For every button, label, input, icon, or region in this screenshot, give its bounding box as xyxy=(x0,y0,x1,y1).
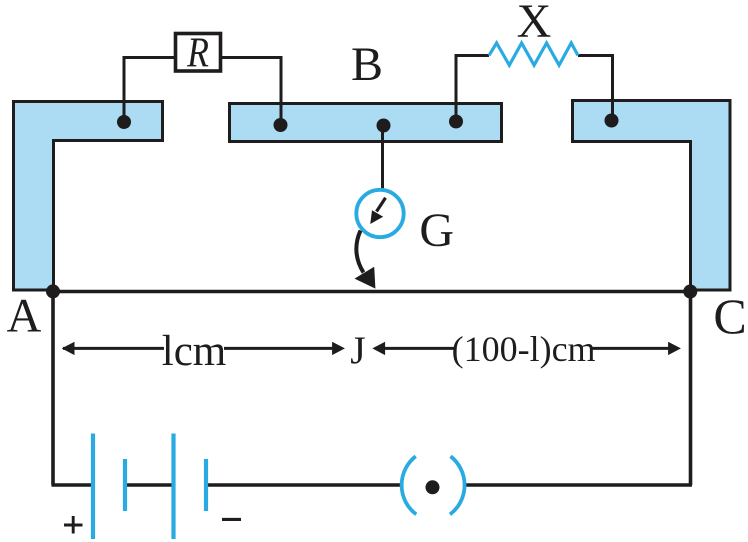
svg-text:A: A xyxy=(7,290,42,343)
svg-text:(100-l)cm: (100-l)cm xyxy=(452,329,596,369)
svg-text:J: J xyxy=(350,328,365,372)
svg-text:X: X xyxy=(517,0,552,48)
svg-text:C: C xyxy=(713,288,746,344)
svg-text:G: G xyxy=(419,204,454,257)
svg-text:R: R xyxy=(186,30,209,76)
svg-text:B: B xyxy=(351,38,383,91)
svg-text:lcm: lcm xyxy=(162,328,226,375)
